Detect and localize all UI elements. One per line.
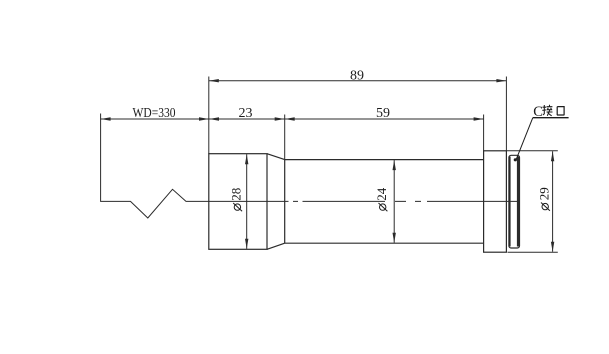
svg-text:WD=330: WD=330 <box>133 106 176 121</box>
svg-text:28: 28 <box>229 188 244 201</box>
svg-text:59: 59 <box>376 106 390 121</box>
svg-text:29: 29 <box>536 187 551 200</box>
svg-text:24: 24 <box>374 187 389 201</box>
svg-text:89: 89 <box>350 69 364 84</box>
svg-text:23: 23 <box>239 106 253 121</box>
